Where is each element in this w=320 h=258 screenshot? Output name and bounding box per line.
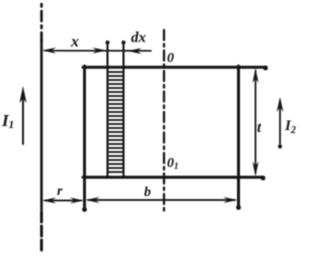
loop bottom edge <box>83 176 265 181</box>
svg-text:dx: dx <box>131 30 147 46</box>
svg-text:01: 01 <box>167 156 179 171</box>
dimension dx <box>128 48 142 54</box>
svg-text:x: x <box>70 34 79 51</box>
loop top edge <box>83 66 268 71</box>
dimension l <box>252 68 258 177</box>
svg-text:b: b <box>144 185 151 200</box>
strip left boundary <box>106 41 110 177</box>
svg-text:I1: I1 <box>1 111 14 131</box>
svg-text:r: r <box>57 184 63 199</box>
svg-text:t: t <box>257 120 262 136</box>
dimension x <box>42 48 151 54</box>
current arrow I1 <box>19 86 26 144</box>
loop left edge <box>82 66 87 212</box>
svg-text:I2: I2 <box>284 118 296 136</box>
svg-text:0: 0 <box>167 51 174 66</box>
strip hatching <box>108 72 123 172</box>
dimension b <box>86 197 238 203</box>
loop right edge <box>236 66 241 210</box>
wire W1 (infinite straight wire, dash-dot axis, left) <box>40 4 43 251</box>
dimension r <box>42 198 84 204</box>
axis O-O1 (dash-dot centre line) <box>163 30 165 211</box>
current arrow I2 <box>277 97 284 149</box>
strip right boundary <box>122 41 126 177</box>
